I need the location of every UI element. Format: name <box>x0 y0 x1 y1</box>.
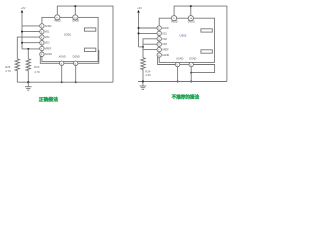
svg-text:VREF: VREF <box>162 49 169 52</box>
svg-text:AGND: AGND <box>176 58 183 61</box>
wire top pin B stub left <box>74 6 76 15</box>
wire pin1 tap left <box>22 25 40 27</box>
node dot pin4 tap left <box>21 42 23 44</box>
node dot bottom pin A left <box>61 81 63 83</box>
right IC pin 2 <box>157 31 167 35</box>
wire pin2 tap left <box>22 31 40 33</box>
wire pin3 to left resistor <box>17 37 39 59</box>
svg-text:AVDD: AVDD <box>45 25 52 28</box>
svg-text:VD3: VD3 <box>162 43 167 46</box>
wire right resistor feed <box>27 49 29 59</box>
left IC pin 2 <box>40 29 50 33</box>
wire bottom chain circle1-circle2 right <box>180 64 189 66</box>
left IC pin 5 <box>40 46 52 50</box>
IC U301 left body <box>42 17 98 61</box>
wire pin1 tap right <box>139 27 158 29</box>
right-edge box pin 1 left IC <box>84 28 95 31</box>
svg-text:VD1: VD1 <box>162 32 167 35</box>
left IC pin 4 <box>40 41 50 45</box>
right IC pin 4 <box>157 42 167 46</box>
svg-text:正确接法: 正确接法 <box>39 96 58 103</box>
node dot ground tap left <box>27 81 29 83</box>
resistor R24 right <box>141 58 151 82</box>
svg-text:4.3K: 4.3K <box>145 73 151 77</box>
svg-text:AGND: AGND <box>162 54 169 57</box>
svg-text:+3V: +3V <box>137 6 142 10</box>
wire bottom pin A stub right <box>177 67 179 82</box>
wire pin4 tap right <box>143 43 157 45</box>
wire pin5 tap from bus corner left <box>22 48 40 50</box>
resistor R24 left <box>26 59 40 82</box>
right IC top pin B <box>188 16 195 24</box>
node dot bridge right <box>142 46 144 48</box>
right-edge box pin 2 right IC <box>201 50 212 53</box>
svg-text:VD3: VD3 <box>45 42 50 45</box>
resistor R26 left <box>5 59 19 82</box>
left IC top pin A <box>54 15 61 23</box>
node dot bottom pin B left <box>75 81 77 83</box>
wire +3V bus left <box>21 13 23 49</box>
wire pin6 drop to bottom chain left <box>40 56 59 63</box>
node dot pin1 tap right <box>138 27 140 29</box>
right IC bottom pin B <box>189 58 197 67</box>
svg-text:R24: R24 <box>34 65 40 69</box>
ground symbol right <box>140 82 147 90</box>
wire +3V bus right <box>138 13 140 47</box>
wire bottom pin B stub right <box>190 67 192 82</box>
right IC pin 1 <box>157 26 169 30</box>
wire pin5 tap right <box>143 49 157 51</box>
svg-text:U301: U301 <box>64 32 71 36</box>
wire bus bridge right <box>139 46 144 48</box>
right-edge box pin 1 right IC <box>201 29 212 32</box>
node dot top link right <box>190 5 192 7</box>
left IC pin 3 <box>40 35 50 39</box>
left IC bottom pin A <box>59 55 66 65</box>
left IC pin 1 <box>40 24 52 28</box>
svg-text:DVDD: DVDD <box>72 20 79 23</box>
node dot resistor ground tap right <box>142 80 144 82</box>
node dot right resistor tap <box>27 48 29 50</box>
svg-text:AVDD: AVDD <box>171 20 178 23</box>
node dot bottom pin B right <box>190 81 192 83</box>
svg-text:4.7K: 4.7K <box>34 70 40 74</box>
svg-text:AGND: AGND <box>59 55 66 58</box>
right IC pin 5 <box>157 47 169 51</box>
ground symbol left <box>25 82 32 90</box>
right IC bottom pin A <box>175 58 183 67</box>
power +3V symbol right <box>137 6 142 12</box>
right IC pin 6 <box>157 53 169 57</box>
svg-text:VREF: VREF <box>45 48 52 51</box>
power +3V symbol left <box>21 6 26 12</box>
wire pin3 corner + gnd vertical right <box>143 39 157 58</box>
right IC top pin A <box>171 16 178 24</box>
wire pin6 drop to bottom chain right <box>158 57 176 64</box>
wire top riser right <box>174 6 227 81</box>
right-edge box pin 2 left IC <box>84 48 95 51</box>
left IC top pin B <box>72 15 79 23</box>
svg-text:AGND: AGND <box>45 53 52 56</box>
wire pin4 tap left <box>22 42 40 44</box>
node dot bottom pin A right <box>177 81 179 83</box>
node dot top link left <box>74 5 76 7</box>
left IC bottom pin B <box>73 55 80 65</box>
svg-text:VD2: VD2 <box>162 38 167 41</box>
wire bottom bus right <box>138 81 227 83</box>
svg-text:AVDD: AVDD <box>162 27 169 30</box>
svg-text:不推荐的接法: 不推荐的接法 <box>172 94 200 101</box>
wire bottom chain circle1-circle2 left <box>64 62 74 64</box>
wire bottom pin2 side loop right <box>191 65 214 73</box>
svg-text:VD2: VD2 <box>45 36 50 39</box>
wire bottom bus left <box>17 81 113 83</box>
svg-text:4.7K: 4.7K <box>5 69 11 73</box>
wire pin2 tap right <box>139 32 158 34</box>
IC U302 right body <box>159 18 214 62</box>
svg-text:U302: U302 <box>179 34 186 38</box>
svg-text:DGND: DGND <box>189 58 196 61</box>
right IC pin 3 <box>157 37 167 41</box>
svg-text:VD1: VD1 <box>45 31 50 34</box>
left IC pin 6 <box>40 52 52 56</box>
wire bottom pin2 to box pin2 left <box>78 50 99 63</box>
wire bottom pin B stub left <box>75 66 77 83</box>
svg-text:DGND: DGND <box>73 55 80 58</box>
wire top riser left <box>57 6 113 82</box>
node dot pin2 tap left <box>21 31 23 33</box>
svg-text:AVDD: AVDD <box>54 20 61 23</box>
wire bottom pin A stub left <box>61 66 63 83</box>
node dot side loop junction right <box>190 72 192 74</box>
node dot pin2 tap right <box>138 32 140 34</box>
svg-text:+3V: +3V <box>21 6 26 10</box>
wire top pin B stub right <box>190 6 192 16</box>
svg-text:DVDD: DVDD <box>188 20 195 23</box>
